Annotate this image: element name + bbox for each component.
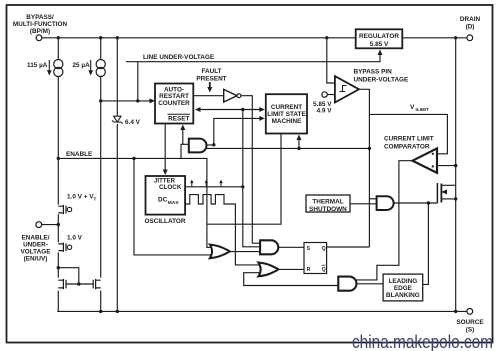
terminal EN/UV — [36, 222, 42, 228]
wire zener vertical x117 — [116, 38, 118, 312]
wire enable riser to AND1 — [181, 144, 189, 158]
gate AND1 enable/bypass — [189, 139, 207, 153]
junction C1 clock-bus — [241, 108, 244, 111]
gate OR2 reset — [258, 263, 278, 277]
transistor M2 (1.0V) — [58, 243, 66, 252]
terminal BP/M — [36, 35, 42, 41]
svg-text:SHUTDOWN: SHUTDOWN — [309, 206, 347, 213]
svg-text:RESET: RESET — [168, 116, 189, 123]
hysteresis glyph — [340, 86, 347, 92]
wire gate riser to LEB — [423, 203, 429, 284]
wire inverter output down — [241, 96, 260, 244]
comparator input marks — [432, 153, 434, 155]
svg-text:1.0 V: 1.0 V — [67, 235, 83, 242]
svg-text:OSCILLATOR: OSCILLATOR — [145, 218, 186, 225]
wire machine bottom arrow riser — [298, 139, 300, 148]
wire machine drop to enable T — [207, 134, 281, 225]
svg-text:CLOCK: CLOCK — [159, 184, 182, 191]
wire enable line — [58, 158, 212, 247]
arrowhead fault present — [207, 87, 212, 93]
svg-text:115 µA: 115 µA — [27, 62, 48, 69]
wire clock vertical — [243, 110, 260, 247]
arrowhead clock into counter — [195, 107, 201, 112]
junction B1 counter-in — [99, 99, 102, 102]
wire bypass-ok line B — [202, 147, 369, 149]
svg-text:THERMAL: THERMAL — [312, 199, 343, 206]
junction C4 lineB-riser — [368, 147, 371, 150]
wire OR1 output — [230, 251, 261, 253]
svg-text:COUNTER: COUNTER — [158, 100, 190, 107]
wire mosfet source stub — [441, 198, 455, 200]
wire line under-voltage — [126, 55, 380, 62]
junction G3 rail-drain — [454, 310, 457, 313]
junction A5 drain — [454, 36, 457, 39]
arrowhead into machine bottom — [297, 135, 302, 141]
gate AND2 set — [260, 240, 278, 254]
terminal SOURCE — [467, 309, 473, 315]
junction G2 rail-zener — [116, 310, 119, 313]
arrowhead current source I1 — [47, 70, 52, 75]
junction F1 gate-drive — [427, 201, 430, 204]
svg-text:MACHINE: MACHINE — [272, 118, 303, 125]
svg-text:5.85 V: 5.85 V — [370, 41, 389, 48]
gate inverter U3 — [224, 89, 237, 102]
svg-text:6.4 V: 6.4 V — [125, 119, 141, 126]
box oscillator — [146, 176, 186, 215]
svg-text:T: T — [94, 197, 97, 202]
transistor M4 mirror right — [93, 279, 101, 289]
wire counter to oscillator — [164, 124, 166, 172]
wire AND2 output to latch — [278, 246, 303, 248]
svg-text:1.0 V + V: 1.0 V + V — [67, 194, 94, 201]
arrowhead current source I2 — [88, 70, 93, 75]
arrowhead into counter reset — [180, 125, 185, 131]
wire machine enable input — [214, 118, 261, 144]
box regulator — [356, 29, 403, 48]
wire regulator to drain — [402, 37, 467, 39]
gate AND4 thermal — [377, 196, 394, 210]
clock jitter ticks — [192, 182, 221, 187]
comparator current limit — [413, 148, 438, 173]
svg-text:(D): (D) — [466, 24, 475, 31]
arrowhead into regulator — [378, 50, 383, 56]
wire mosfet drain stub — [441, 184, 455, 186]
svg-text:LIMIT STATE: LIMIT STATE — [267, 111, 306, 118]
junction F2 drain-sense — [454, 164, 457, 167]
svg-text:ILIMIT: ILIMIT — [416, 107, 429, 112]
transistor Q1 power MOSFET — [437, 183, 441, 203]
svg-text:DRAIN: DRAIN — [460, 16, 481, 23]
current source I2 25uA — [96, 60, 105, 77]
svg-text:UNDER-VOLTAGE: UNDER-VOLTAGE — [354, 77, 410, 84]
wire AND4 upper input — [369, 198, 376, 200]
svg-text:(EN/UV): (EN/UV) — [24, 256, 48, 263]
arrowhead into oscillator — [163, 170, 168, 176]
junction B2 luv-counter — [136, 99, 139, 102]
arrowhead clock into machine — [259, 107, 265, 112]
arrowhead into counter input — [150, 98, 156, 103]
svg-text:REGULATOR: REGULATOR — [359, 33, 399, 40]
box latch U2 — [304, 243, 327, 274]
arrowhead enable into machine — [259, 116, 265, 121]
zener diode 6.4V — [112, 116, 123, 123]
wire BP/M main rail — [42, 37, 356, 39]
box current limit state machine — [266, 94, 307, 133]
svg-text:UNDER-: UNDER- — [23, 242, 48, 249]
wire counter input — [101, 100, 151, 102]
svg-text:R: R — [307, 267, 311, 273]
svg-text:25 µA: 25 µA — [73, 62, 91, 69]
svg-text:S: S — [307, 246, 311, 252]
wire OR2 lower input loop — [244, 273, 342, 286]
svg-text:EDGE: EDGE — [394, 285, 413, 292]
wire CL comparator output path — [355, 161, 413, 280]
wire dcmax waveform — [185, 195, 261, 265]
svg-text:BYPASS/: BYPASS/ — [26, 14, 54, 21]
junction A3 bp/m-zener — [116, 36, 119, 39]
gate OR1 — [210, 245, 230, 259]
svg-text:Q: Q — [322, 267, 326, 273]
junction D2 enable-drop — [132, 157, 135, 160]
svg-text:(BP/M): (BP/M) — [30, 28, 50, 35]
svg-text:LINE UNDER-VOLTAGE: LINE UNDER-VOLTAGE — [143, 54, 215, 61]
wire vilimit — [369, 114, 447, 153]
svg-text:COMPARATOR: COMPARATOR — [384, 144, 430, 151]
arrowhead mosfet body — [441, 189, 447, 194]
wire AND1 output — [206, 144, 213, 146]
svg-text:LEADING: LEADING — [389, 278, 418, 285]
junction A2 bp/m-25uA — [99, 36, 102, 39]
svg-text:DC: DC — [158, 196, 168, 203]
svg-text:china.makepolo.com: china.makepolo.com — [352, 332, 493, 351]
wire thermal output — [350, 203, 377, 205]
svg-text:ENABLE/: ENABLE/ — [21, 235, 49, 242]
svg-text:MULTI-FUNCTION: MULTI-FUNCTION — [13, 21, 68, 28]
wire threshold stub — [327, 94, 335, 96]
svg-text:MAX: MAX — [168, 200, 180, 206]
wire LUV drop to counter input — [137, 62, 139, 101]
junction C2 and1-out — [212, 143, 215, 146]
wire en/uv pin — [42, 224, 58, 226]
junction A4 bp/m-comparator — [325, 36, 328, 39]
wire mid vertical x100 — [100, 38, 102, 312]
svg-text:BLANKING: BLANKING — [386, 292, 420, 299]
svg-text:CURRENT LIMIT: CURRENT LIMIT — [384, 136, 434, 143]
wire bypass comparator output vertical — [359, 89, 369, 247]
box leading edge blanking — [383, 274, 423, 301]
wire AND3 output to LEB — [357, 283, 383, 285]
junction E2 mirror-top — [57, 266, 60, 269]
transistor M1 (1.0V+VT) — [58, 205, 66, 214]
box thermal shutdown — [306, 195, 350, 212]
svg-text:FAULT: FAULT — [201, 68, 221, 75]
wire bp/m drop to comparator — [327, 38, 335, 83]
wire latch Q to riser — [326, 246, 370, 248]
wire enable drop x134 — [134, 158, 216, 255]
wire OR2 output to latch — [279, 268, 304, 270]
junction C5 clock-tap — [241, 185, 244, 188]
wire counter-machine clock bus — [199, 109, 261, 111]
wire mirror gate tie — [58, 268, 93, 284]
svg-text:VOLTAGE: VOLTAGE — [21, 249, 52, 256]
junction G1 rail-m4 — [99, 310, 102, 313]
junction E3 mirror-gates — [77, 282, 80, 285]
comparator bypass pin under-voltage — [335, 76, 359, 102]
junction D1 enable-left — [57, 157, 60, 160]
current source arrow stems — [49, 60, 90, 71]
svg-text:SOURCE: SOURCE — [456, 319, 484, 326]
svg-text:PRESENT: PRESENT — [196, 76, 226, 83]
svg-text:ENABLE: ENABLE — [66, 151, 93, 158]
junction F3 source-stub — [454, 197, 457, 200]
wire clock output — [185, 186, 243, 188]
svg-text:4.9 V: 4.9 V — [317, 108, 333, 115]
wire AND4 output to gate — [395, 202, 438, 204]
transistor M3 mirror left — [58, 279, 66, 289]
current source I1 115uA — [54, 60, 63, 77]
terminal DRAIN — [467, 35, 473, 41]
wire CL comparator lower input — [436, 165, 456, 167]
svg-text:BYPASS PIN: BYPASS PIN — [354, 69, 393, 76]
terminal threshold circle — [322, 92, 327, 97]
wire source rail — [57, 310, 466, 312]
wire inverter input — [193, 95, 223, 97]
latch pin squares — [307, 246, 326, 273]
junction C3 machine-bottom — [297, 147, 300, 150]
junction E1 enuv-pin — [57, 223, 60, 226]
wire left vertical x58 — [57, 38, 59, 312]
svg-text:Q: Q — [322, 246, 326, 252]
svg-text:V: V — [410, 104, 415, 111]
gate AND3 LEB drive — [338, 277, 356, 291]
wire drain vertical — [455, 38, 457, 312]
wire reset arrow riser — [182, 129, 184, 145]
svg-text:CURRENT: CURRENT — [271, 104, 302, 111]
box auto-restart counter U1 — [155, 84, 193, 124]
junction A1 bp/m-115uA — [57, 36, 60, 39]
